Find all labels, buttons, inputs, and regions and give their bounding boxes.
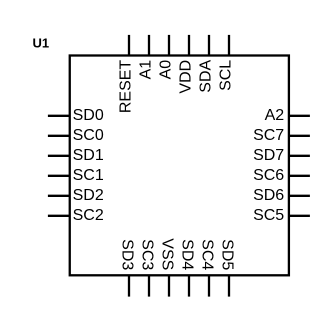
svg-text:SC1: SC1 <box>73 167 104 184</box>
svg-text:VDD: VDD <box>177 60 194 94</box>
svg-text:SC7: SC7 <box>253 127 284 144</box>
pin SC6 wire (right 4) <box>289 175 310 177</box>
pin SD4 wire (bottom 4) <box>188 275 190 296</box>
pin SC3 wire (bottom 2) <box>148 275 150 296</box>
pin A2 wire (right 1) <box>289 115 310 117</box>
svg-text:A2: A2 <box>265 107 285 124</box>
svg-text:SD4: SD4 <box>179 239 196 270</box>
svg-text:SC6: SC6 <box>253 167 284 184</box>
pin SC1 wire (left 4) <box>48 175 70 177</box>
svg-text:VSS: VSS <box>159 238 176 270</box>
pin SD2 wire (left 5) <box>48 195 70 197</box>
pin SC0 wire (left 2) <box>48 135 70 137</box>
pin SC5 wire (right 6) <box>289 215 310 217</box>
pin RESET wire (top 1) <box>128 35 130 56</box>
pin SD7 wire (right 3) <box>289 155 310 157</box>
svg-text:SC0: SC0 <box>73 127 104 144</box>
svg-text:SDA: SDA <box>197 59 214 92</box>
pin SD3 wire (bottom 1) <box>128 275 130 296</box>
pin VSS wire (bottom 3) <box>168 275 170 296</box>
pin SDA wire (top 5) <box>208 35 210 56</box>
svg-text:A0: A0 <box>157 60 174 80</box>
pin A0 wire (top 3) <box>168 35 170 56</box>
pin SC2 wire (left 6) <box>48 215 70 217</box>
svg-text:SD5: SD5 <box>219 239 236 270</box>
IC U1 body outline <box>70 56 289 276</box>
svg-text:SCL: SCL <box>217 60 234 91</box>
svg-text:SC5: SC5 <box>253 207 284 224</box>
pin SD1 wire (left 3) <box>48 155 70 157</box>
pin SC4 wire (bottom 5) <box>208 275 210 296</box>
pin VDD wire (top 4) <box>188 35 190 56</box>
svg-text:SC4: SC4 <box>199 239 216 270</box>
svg-text:SC2: SC2 <box>73 207 104 224</box>
svg-text:SD6: SD6 <box>253 187 284 204</box>
pin SD5 wire (bottom 6) <box>228 275 230 296</box>
svg-text:SD3: SD3 <box>119 239 136 270</box>
svg-text:SD7: SD7 <box>253 147 284 164</box>
pin SD0 wire (left 1) <box>48 115 70 117</box>
svg-text:SD2: SD2 <box>73 187 104 204</box>
svg-text:SD0: SD0 <box>73 107 104 124</box>
pin A1 wire (top 2) <box>148 35 150 56</box>
svg-text:U1: U1 <box>33 36 50 51</box>
svg-text:A1: A1 <box>137 60 154 80</box>
svg-text:SD1: SD1 <box>73 147 104 164</box>
svg-text:RESET: RESET <box>117 60 134 114</box>
pin SCL wire (top 6) <box>228 35 230 56</box>
pin SD6 wire (right 5) <box>289 195 310 197</box>
pin SC7 wire (right 2) <box>289 135 310 137</box>
svg-text:SC3: SC3 <box>139 239 156 270</box>
